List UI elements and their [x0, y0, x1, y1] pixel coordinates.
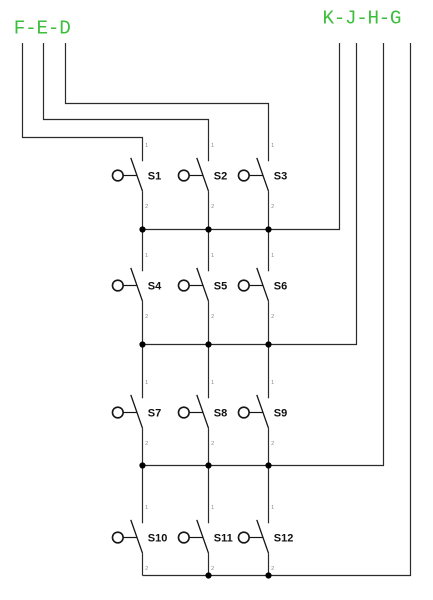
svg-text:2: 2	[211, 566, 214, 572]
svg-text:2: 2	[211, 314, 214, 320]
svg-text:2: 2	[271, 566, 274, 572]
svg-text:F-E-D: F-E-D	[14, 18, 71, 40]
junction dot row 2 col 3	[265, 341, 271, 347]
svg-text:1: 1	[211, 253, 214, 259]
svg-text:2: 2	[211, 441, 214, 447]
svg-text:1: 1	[211, 380, 214, 386]
wire column 1 segment below row 1 switch	[142, 191, 144, 271]
svg-text:2: 2	[271, 314, 274, 320]
wire column 1 segment below row 2 switch	[142, 301, 144, 398]
svg-text:S10: S10	[148, 533, 168, 545]
wire column 2 segment below row 2 switch	[208, 301, 210, 398]
switch S2 (pushbutton)	[178, 143, 227, 210]
svg-text:K-J-H-G: K-J-H-G	[323, 7, 402, 29]
switch S7 (pushbutton)	[112, 380, 161, 447]
wire net J (row 2)	[143, 43, 357, 345]
wire column 3 segment below row 4 switch	[268, 553, 270, 575]
wire net H (row 3)	[143, 43, 384, 466]
svg-text:2: 2	[271, 441, 274, 447]
svg-text:2: 2	[145, 314, 148, 320]
switch S1 (pushbutton)	[112, 143, 161, 210]
svg-text:2: 2	[145, 204, 148, 210]
switch S10 (pushbutton)	[112, 505, 167, 572]
junction dot row 4 col 2	[205, 572, 211, 578]
svg-text:1: 1	[211, 143, 214, 149]
switch S6 (pushbutton)	[238, 253, 287, 320]
junction dot row 3 col 3	[265, 462, 271, 468]
switch S4 (pushbutton)	[112, 253, 162, 320]
wire column 1 segment below row 4 switch	[142, 553, 144, 575]
svg-text:S6: S6	[274, 281, 287, 293]
junction dot row 1 col 1	[139, 226, 145, 232]
svg-text:S3: S3	[274, 171, 287, 183]
wire column 3 segment below row 2 switch	[268, 301, 270, 398]
junction dot row 2 col 1	[139, 341, 145, 347]
wire column 3 segment below row 3 switch	[268, 428, 270, 523]
svg-text:S11: S11	[214, 533, 233, 545]
wire net K (row 1)	[143, 43, 340, 230]
switch S11 (pushbutton)	[178, 505, 232, 572]
wire column 1 segment below row 3 switch	[142, 428, 144, 523]
svg-text:2: 2	[145, 441, 148, 447]
svg-text:1: 1	[271, 380, 274, 386]
junction dot row 1 col 3	[265, 226, 271, 232]
svg-text:1: 1	[271, 143, 274, 149]
wire column 2 segment below row 4 switch	[208, 553, 210, 575]
junction dot row 1 col 2	[205, 226, 211, 232]
switch S12 (pushbutton)	[238, 505, 293, 572]
junction dot row 4 col 3	[265, 572, 271, 578]
switch S3 (pushbutton)	[238, 143, 287, 210]
switch S8 (pushbutton)	[178, 380, 227, 447]
svg-text:S12: S12	[274, 533, 294, 545]
svg-text:S9: S9	[274, 408, 287, 420]
svg-text:S4: S4	[148, 281, 162, 293]
junction dot row 3 col 1	[139, 462, 145, 468]
wire net D (to S3 pin 1)	[66, 43, 269, 161]
svg-text:1: 1	[271, 253, 274, 259]
switch S9 (pushbutton)	[238, 380, 287, 447]
wire net F (to S1 pin 1)	[23, 43, 143, 161]
wire column 2 segment below row 3 switch	[208, 428, 210, 523]
wire net G (row 4)	[143, 43, 411, 576]
junction dot row 3 col 2	[205, 462, 211, 468]
svg-text:1: 1	[271, 505, 274, 511]
svg-text:1: 1	[211, 505, 214, 511]
svg-text:2: 2	[211, 204, 214, 210]
svg-text:1: 1	[145, 380, 148, 386]
svg-text:1: 1	[145, 143, 148, 149]
svg-text:S7: S7	[148, 408, 161, 420]
svg-text:2: 2	[271, 204, 274, 210]
wire net E (to S2 pin 1)	[44, 43, 209, 161]
switch S5 (pushbutton)	[178, 253, 227, 320]
svg-text:S2: S2	[214, 171, 227, 183]
svg-text:S1: S1	[148, 171, 161, 183]
svg-text:2: 2	[145, 566, 148, 572]
svg-text:1: 1	[145, 253, 148, 259]
svg-text:S5: S5	[214, 281, 227, 293]
junction dot row 2 col 2	[205, 341, 211, 347]
svg-text:1: 1	[145, 505, 148, 511]
svg-text:S8: S8	[214, 408, 227, 420]
wire column 2 segment below row 1 switch	[208, 191, 210, 271]
wire column 3 segment below row 1 switch	[268, 191, 270, 271]
